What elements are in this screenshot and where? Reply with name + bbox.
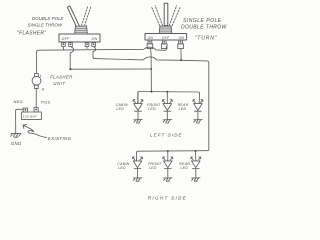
wire right-side vertical down to right bus	[137, 63, 209, 161]
ground for D6	[192, 178, 200, 181]
ground GND main	[11, 133, 21, 137]
switch S2 turn body	[145, 34, 187, 41]
wire left bus	[138, 92, 200, 104]
LED D1 cabin left	[133, 92, 143, 120]
switch S1 pin 2	[69, 43, 73, 47]
switch S1 bushing	[75, 26, 88, 34]
wire left LED2 drop	[166, 92, 168, 104]
svg-text:A: A	[41, 88, 45, 92]
switch S2 lug 1	[147, 44, 153, 49]
switch S1 pin 3	[85, 43, 89, 47]
junction dot right bus LED2	[167, 150, 169, 152]
junction dot right bus LED3	[195, 150, 197, 152]
svg-text:LEFT SIDE: LEFT SIDE	[150, 132, 183, 137]
switch S2 pin 2	[162, 40, 166, 44]
LED D6 rear right	[191, 157, 201, 178]
switch S2 pin 3	[179, 40, 183, 44]
wire net B horizontal to right-side vertical	[95, 57, 209, 63]
ground for D1	[134, 120, 142, 123]
svg-text:LED: LED	[179, 107, 187, 111]
LED D3 rear left	[193, 100, 203, 120]
svg-text:SINGLE POLE: SINGLE POLE	[183, 18, 222, 24]
LED D2 front left	[162, 100, 172, 120]
svg-text:LED: LED	[118, 166, 126, 170]
switch S1 pin 4	[92, 43, 96, 47]
svg-text:LED: LED	[180, 166, 188, 170]
svg-text:OFF: OFF	[162, 36, 170, 40]
svg-text:ON: ON	[92, 37, 98, 41]
svg-text:L: L	[40, 74, 42, 78]
switch S2 lug 3	[178, 44, 184, 49]
wire battery NEG to ground	[16, 109, 24, 133]
switch S2 pin 1	[148, 40, 152, 44]
switch S2 dashed lever left	[152, 6, 163, 26]
svg-text:POS: POS	[41, 99, 50, 104]
svg-text:LED: LED	[116, 107, 124, 111]
wire S2 right lug down to net B	[180, 49, 182, 61]
svg-text:"TURN": "TURN"	[195, 36, 218, 42]
LED D5 front right	[163, 157, 173, 178]
wire net A: flasher unit top to S1 pin1, S1 pin3 stub, to S2 middle lug	[37, 46, 167, 73]
svg-text:EXISTING: EXISTING	[48, 136, 72, 141]
ground for D2	[163, 120, 171, 123]
svg-text:ON: ON	[148, 36, 154, 40]
LED D4 cabin right	[133, 157, 143, 178]
wire S1 pin2 down (hop over net A) to net C	[70, 47, 74, 70]
wire net C horizontal to S2 left-pin vertical	[72, 68, 151, 70]
svg-text:DOUBLE THROW: DOUBLE THROW	[181, 24, 228, 30]
junction dot net C / left vertical	[150, 68, 152, 70]
svg-text:ON: ON	[179, 36, 185, 40]
switch S2 lug 2	[161, 44, 167, 49]
switch S2 bushing	[159, 26, 172, 34]
svg-text:GND: GND	[11, 141, 22, 146]
wire S2 left lug down to left bus	[150, 49, 153, 92]
svg-text:UNIT: UNIT	[53, 81, 65, 86]
svg-text:FLASHER: FLASHER	[50, 75, 73, 80]
battery BT1	[21, 108, 41, 120]
wire flasher unit bottom to battery POS	[35, 88, 37, 107]
svg-text:SINGLE THROW: SINGLE THROW	[28, 22, 63, 27]
flasher unit FL1	[32, 73, 41, 88]
svg-text:12V BAT: 12V BAT	[23, 115, 38, 119]
switch S2 solid lever	[164, 3, 168, 25]
junction dot left bus LED2	[166, 91, 168, 93]
junction dot left bus feed	[150, 91, 152, 93]
junction dot net C corner	[69, 68, 71, 70]
switch S2 dashed lever right	[169, 6, 180, 26]
svg-text:OFF: OFF	[62, 37, 71, 41]
ground for D4	[133, 178, 141, 181]
switch S1 flasher body	[59, 34, 100, 42]
svg-text:LED: LED	[149, 166, 157, 170]
svg-text:DOUBLE POLE: DOUBLE POLE	[32, 16, 64, 21]
svg-text:LED: LED	[148, 107, 156, 111]
wire right LED2 drop	[167, 151, 169, 161]
ground for D5	[164, 178, 172, 181]
existing arrow	[23, 125, 47, 137]
svg-text:"FLASHER": "FLASHER"	[17, 31, 46, 37]
wire S1 pin4 down (hop over net A) to net B	[93, 47, 96, 59]
switch S1 dashed lever	[82, 6, 91, 26]
wire right LED3 drop	[195, 151, 197, 161]
switch S1 pin 1	[62, 43, 66, 47]
junction dot net B / S2 right pin	[180, 59, 182, 61]
svg-text:NEG: NEG	[14, 99, 24, 104]
switch S1 solid lever	[67, 6, 79, 26]
svg-text:RIGHT SIDE: RIGHT SIDE	[148, 196, 187, 201]
ground for D3	[194, 120, 202, 123]
